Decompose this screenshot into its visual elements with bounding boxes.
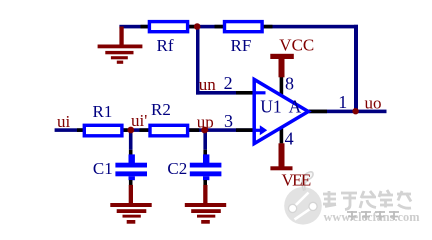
C1 ground bars [110,203,151,224]
resistor Rf lead left (black) [141,25,150,29]
svg-text:C1: C1 [93,159,113,178]
wire pin2 horizontal [196,91,236,95]
svg-text:R1: R1 [93,102,113,121]
ground (top-left) bars [98,45,143,64]
svg-text:8: 8 [285,74,294,94]
capacitor C2 pin top wire (navy) [203,128,207,150]
VEE bar [270,166,292,170]
resistor R2 lead left (black) [140,128,150,132]
VCC stem [279,57,285,77]
resistor R2 body [150,125,188,136]
C2 ground bars [185,203,226,224]
junction dot ui' [127,127,134,134]
wire input horizontal [55,128,256,132]
svg-text:VCC: VCC [279,35,314,54]
VCC bar [270,54,294,59]
svg-text:3: 3 [224,111,233,131]
svg-text:1: 1 [338,92,347,112]
svg-text:A: A [289,97,302,117]
opamp pin 2 lead (black) [236,91,255,95]
opamp pin 3 lead (black) [236,128,255,132]
ground (top-left) stub [119,27,123,46]
opamp U1A triangle [254,79,308,143]
svg-text:www.elecfans.com: www.elecfans.com [324,209,420,224]
watermark small glyph overlay [347,211,399,220]
resistor R1 lead right (black) [121,128,128,132]
junction dot Rf/RF [194,23,201,30]
opamp inverting input marker [255,91,266,94]
opamp pin 4 lead (black) [280,124,284,143]
junction dot up [201,127,208,134]
resistor Rf lead right (black) [189,25,195,29]
watermark logo circle [284,172,322,225]
svg-text:uo: uo [365,93,382,112]
svg-text:2: 2 [224,73,233,93]
resistor RF lead right (black) [263,25,273,29]
svg-text:4: 4 [285,128,294,148]
svg-text:un: un [199,75,217,94]
resistor R2 lead right (black) [189,128,200,132]
wire top horizontal [119,25,358,29]
C1 ground stub [129,185,133,204]
resistor R1 body [84,125,122,136]
resistor RF body [225,22,263,32]
svg-text:VEE: VEE [282,171,312,190]
capacitor C1 plates [129,154,135,163]
resistor R1 lead left (black) [77,128,84,132]
wire right vertical [354,25,358,113]
opamp pin 8 lead (black) [280,77,284,97]
resistor RF lead left (black) [215,25,224,29]
wire output horizontal [308,110,387,114]
capacitor C2 pin top (black) [203,150,207,155]
watermark brand glyph blocks [323,190,411,210]
svg-text:U1: U1 [260,97,281,117]
wire pin2 vertical [196,26,200,95]
opamp non-inverting arrow marker [255,125,268,135]
svg-text:R2: R2 [151,100,171,119]
svg-text:ui: ui [57,112,71,131]
svg-text:C2: C2 [167,159,187,178]
C2 ground stub [203,185,207,204]
capacitor C2 plates [203,154,209,163]
opamp pin 1 lead (black) [309,110,327,114]
capacitor C2 pin bottom (black) [203,180,207,185]
svg-text:Rf: Rf [157,36,174,55]
capacitor C1 pin top wire (navy) [129,128,133,150]
svg-text:ui': ui' [131,111,147,130]
VEE stem [279,143,285,166]
capacitor C1 pin bottom (black) [129,180,133,185]
junction dot output [352,108,358,114]
capacitor C1 pin top (black) [129,150,133,155]
svg-text:RF: RF [231,36,252,55]
resistor Rf body [149,22,187,32]
